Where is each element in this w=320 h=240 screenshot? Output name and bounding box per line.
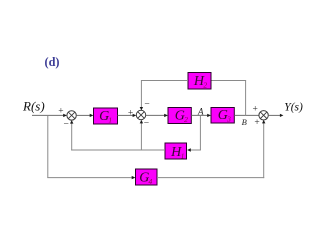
wire bottom row to block G4 — [47, 176, 135, 179]
svg-text:+: + — [58, 106, 63, 116]
sign + at S3 bottom input — [254, 118, 259, 128]
svg-text:A: A — [197, 106, 204, 116]
wire riser into S1 bottom input — [70, 120, 73, 150]
svg-text:+: + — [128, 109, 133, 119]
wire H2 takeoff riser from node B — [245, 81, 247, 116]
svg-text:Y(s): Y(s) — [284, 102, 303, 114]
wire S1 to block G1 — [76, 114, 93, 117]
wire G1 to summer S2 — [118, 114, 137, 117]
block G2 — [168, 108, 191, 124]
svg-text:(d): (d) — [45, 55, 60, 69]
svg-text:−: − — [144, 119, 149, 129]
input label R(s) — [22, 98, 45, 113]
node B label — [242, 117, 247, 127]
block G4 — [136, 169, 158, 186]
svg-text:B: B — [242, 117, 247, 127]
wire G3 to summer S3 through node B — [234, 114, 259, 116]
svg-text:−: − — [144, 100, 149, 110]
output label Y(s) — [284, 102, 303, 114]
block H1 — [165, 143, 187, 161]
block G3 — [211, 108, 234, 124]
sign - at S2 bottom input — [144, 119, 149, 129]
sign + at S1 left input — [58, 106, 63, 116]
wire G2 to block G3 through node A — [191, 114, 211, 117]
wire S2 to block G2 — [146, 114, 168, 117]
summing junction S3 — [259, 111, 268, 120]
block H2 — [188, 73, 211, 90]
wire takeoff branch from R line down to G4 row — [47, 115, 49, 177]
wire branch riser into S2 bottom input — [140, 120, 143, 150]
sign - at S1 lower input — [64, 120, 69, 130]
svg-text:R(s): R(s) — [22, 98, 45, 113]
block G1 — [94, 108, 118, 124]
wire H1 output leftwards along y=150 — [71, 149, 165, 151]
label (d) — [45, 55, 60, 69]
wire H2 top from riser to H2 right side — [211, 80, 246, 82]
summing junction S2 — [136, 110, 145, 119]
svg-text:−: − — [64, 120, 69, 130]
wire R(s) to summer S1 — [32, 114, 67, 117]
sign + at S3 left input — [253, 104, 258, 114]
wire H2 output leftwards — [141, 80, 188, 82]
svg-text:+: + — [253, 104, 258, 114]
svg-text:+: + — [254, 118, 259, 128]
wire G4 output to riser below S3 — [157, 177, 264, 179]
summing junction S1 — [67, 111, 76, 120]
wire H1 takeoff riser from node A — [199, 115, 201, 150]
sign + at S2 left input — [128, 109, 133, 119]
wire riser into S3 bottom input — [262, 120, 265, 178]
wire node A riser to H1 right side — [187, 148, 201, 151]
sign - at S2 top input — [144, 100, 149, 110]
wire S3 to output Y(s) — [268, 114, 283, 117]
wire H2 drop into S2 top input — [140, 80, 143, 110]
node A label — [197, 106, 204, 116]
